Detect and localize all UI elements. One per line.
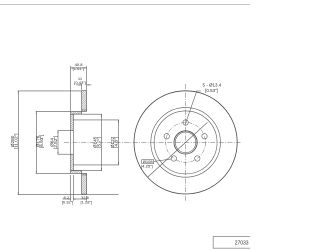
svg-text:[0.53"]: [0.53"] <box>205 88 218 93</box>
bolt circle (dash-dot) <box>166 122 206 162</box>
svg-text:5 - Ø13.4: 5 - Ø13.4 <box>203 82 222 87</box>
disc friction ring top (hatched) <box>82 91 87 112</box>
bolt hole left <box>164 134 169 139</box>
svg-text:27033: 27033 <box>235 241 249 247</box>
dim 40.8 line with arrows <box>71 67 87 69</box>
svg-text:[0.43"]: [0.43"] <box>74 80 86 85</box>
svg-text:[6.93"]: [6.93"] <box>39 135 44 148</box>
svg-text:[5.7"]: [5.7"] <box>96 137 101 148</box>
dim O176 line <box>35 111 37 173</box>
hub flange bottom (hatched) <box>71 154 74 170</box>
hat circle <box>154 111 217 174</box>
svg-text:[1.28"]: [1.28"] <box>81 200 93 205</box>
leader for bolt circle label <box>154 159 172 162</box>
vertical centerline <box>185 84 187 201</box>
hat wall bottom (hatched) <box>71 171 82 174</box>
title block box <box>213 237 252 249</box>
dim 8.2 line <box>63 198 71 200</box>
dim 40.8 extension lines <box>70 66 72 111</box>
bolt circle label box <box>142 160 154 164</box>
dim O280 top extension line (shared tangent) <box>18 90 82 92</box>
svg-text:[4.8"]: [4.8"] <box>113 137 118 148</box>
bolt hole right <box>202 134 207 139</box>
svg-text:[4.25"]: [4.25"] <box>141 163 153 168</box>
leader for bolt hole callout <box>185 91 201 125</box>
dim O145 line <box>100 114 102 170</box>
disc friction ring bottom (hatched) <box>82 173 87 194</box>
diagonal section line <box>148 122 208 177</box>
section centerline <box>64 141 241 143</box>
flange back line across bore <box>72 131 74 155</box>
hub flange top (hatched) <box>71 114 74 131</box>
center bore circle <box>174 131 197 154</box>
dim O280 line <box>17 91 19 195</box>
dim O145 extension lines (right of section) <box>73 113 102 115</box>
svg-text:[11.02"]: [11.02"] <box>13 134 18 150</box>
dim O122 line <box>118 120 120 165</box>
bolt hole top <box>183 120 188 125</box>
dim 11 line with outside arrows <box>76 84 81 86</box>
hat wall top (hatched) <box>71 111 82 114</box>
dim O176 extension lines (left) <box>36 110 71 112</box>
bolt hole bottom-right <box>195 156 200 161</box>
bolt hole bottom-left <box>171 156 176 161</box>
disc inner edge line top <box>82 109 87 111</box>
disc inner edge line bottom <box>82 174 87 176</box>
dim 32.6 line <box>73 198 86 200</box>
dim O64 extension lines <box>57 130 70 132</box>
svg-text:[2.52"]: [2.52"] <box>53 136 58 149</box>
dim O122 extension lines <box>73 119 119 121</box>
bore chamfer circle <box>175 132 196 153</box>
bottom dims extension lines <box>70 175 72 201</box>
top border line <box>0 4 250 6</box>
svg-text:[1.61"]: [1.61"] <box>73 66 85 71</box>
friction band inner circle <box>151 108 221 178</box>
dim O280 bottom extension line <box>18 194 119 196</box>
dim O64 line <box>57 131 59 155</box>
outer circle O280 <box>134 91 237 194</box>
svg-text:[0.32"]: [0.32"] <box>62 200 74 205</box>
flange face line across bore <box>70 131 72 155</box>
